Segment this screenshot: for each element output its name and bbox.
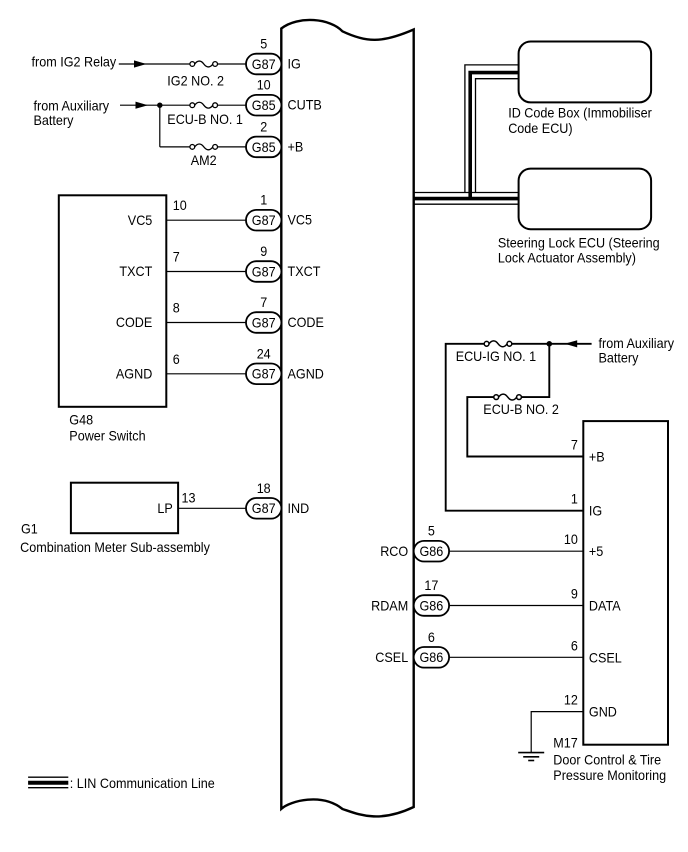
wire G48 TXCT to connector — [166, 271, 247, 273]
block M17 Door Control & Tire Pressure Monitoring — [583, 421, 668, 745]
pin number 1 on M17 — [571, 491, 578, 507]
pin number 9 on M17 — [571, 586, 578, 602]
svg-text:AGND: AGND — [116, 366, 152, 382]
svg-text:ECU-IG NO. 1: ECU-IG NO. 1 — [456, 348, 537, 364]
pin number 18 — [257, 480, 271, 496]
wire fuse AM2 to connector G85 pin 2 — [217, 146, 247, 148]
pin number 1 — [260, 192, 267, 208]
wire junction down to fuse ECU-B NO.2 — [522, 344, 550, 397]
net label VC5 — [288, 212, 313, 228]
net label RDAM — [371, 597, 408, 613]
wire fuse ECU-B NO.2 to +B pin — [467, 397, 583, 456]
pin label +5 inside M17 — [589, 543, 604, 559]
connector G87 pin 1 — [246, 210, 281, 231]
pin label LP inside G1 — [157, 500, 172, 516]
svg-text:G86: G86 — [420, 649, 444, 665]
label Steering Lock ECU — [498, 234, 660, 265]
LIN bus bundle bus-to-steering-lock (thin top) — [414, 192, 519, 194]
svg-text:6: 6 — [428, 629, 435, 645]
block ID Code Box — [519, 42, 652, 103]
svg-text:VC5: VC5 — [288, 212, 313, 228]
svg-text:Lock Actuator Assembly): Lock Actuator Assembly) — [498, 250, 636, 266]
svg-text:9: 9 — [571, 586, 578, 602]
svg-text:12: 12 — [564, 692, 578, 708]
connector G85 pin 10 — [246, 95, 281, 116]
svg-text:ID Code Box (Immobiliser: ID Code Box (Immobiliser — [508, 105, 652, 121]
legend label — [70, 775, 215, 791]
wire connector G86 to M17 (RCO) — [449, 550, 584, 552]
svg-text:TXCT: TXCT — [119, 263, 152, 279]
svg-text:Code ECU): Code ECU) — [508, 120, 572, 136]
svg-text:IG: IG — [589, 503, 602, 519]
connector G87 pin 5 — [246, 54, 281, 75]
pin number 2 — [260, 118, 267, 134]
svg-text:Steering Lock ECU (Steering: Steering Lock ECU (Steering — [498, 234, 660, 250]
fuse ECU-B NO. 1 — [190, 102, 218, 108]
pin number 7 — [260, 294, 267, 310]
connector G87 pin 18 — [246, 498, 281, 519]
net label AGND — [288, 365, 324, 381]
svg-text:G87: G87 — [252, 366, 276, 382]
wire junction to fuse ECU-IG NO.1 — [512, 343, 549, 345]
net label IG — [288, 56, 301, 72]
connector G86 pin 5 — [414, 541, 449, 562]
wire branch to fuse AM2 — [160, 146, 190, 148]
connector G87 pin 7 — [246, 312, 281, 333]
svg-text:IG: IG — [288, 56, 301, 72]
pin label AGND inside G48 — [116, 366, 152, 382]
svg-text:G87: G87 — [252, 500, 276, 516]
svg-text:24: 24 — [257, 345, 271, 361]
arrow into IG wire — [134, 60, 147, 67]
svg-text:G1: G1 — [21, 521, 38, 537]
LIN branch to ID code box (thick) — [470, 73, 518, 199]
pin number 5 — [260, 36, 267, 52]
svg-text:: LIN Communication Line: : LIN Communication Line — [70, 775, 215, 791]
net label CUTB — [288, 97, 322, 113]
legend LIN communication line symbol — [28, 777, 68, 788]
label G1 Combination Meter Sub-assembly — [20, 521, 210, 556]
LIN bus bundle bus-to-steering-lock (thick) — [414, 197, 519, 201]
wire aux battery feed — [549, 343, 591, 345]
LIN bus bundle bus-to-steering-lock (thin bottom) — [414, 203, 519, 205]
block G1 Combination Meter — [71, 483, 178, 534]
pin number 7 on G48 — [173, 249, 180, 265]
svg-text:VC5: VC5 — [128, 212, 153, 228]
svg-text:13: 13 — [182, 489, 196, 505]
wire G48 CODE to connector — [166, 322, 247, 324]
block Steering Lock ECU — [519, 169, 652, 230]
pin number 8 on G48 — [173, 300, 180, 316]
fuse label ECU-IG NO. 1 — [456, 348, 537, 364]
svg-text:5: 5 — [428, 523, 435, 539]
pin number 12 on M17 — [564, 692, 578, 708]
svg-text:Battery: Battery — [34, 112, 74, 128]
svg-text:AM2: AM2 — [191, 152, 217, 168]
svg-text:IG2 NO. 2: IG2 NO. 2 — [167, 73, 224, 89]
svg-text:6: 6 — [173, 351, 180, 367]
wire junction to fuse ECU-B NO.1 — [160, 104, 190, 106]
svg-text:G87: G87 — [252, 263, 276, 279]
pin label IG inside M17 — [589, 503, 602, 519]
svg-text:CODE: CODE — [288, 314, 324, 330]
pin label GND inside M17 — [589, 704, 617, 720]
wire junction-block bus (torn-paper shape) — [281, 20, 413, 816]
wire from IG2 relay to fuse — [119, 63, 190, 65]
wire fuse to connector G85 pin 10 — [217, 104, 247, 106]
svg-text:7: 7 — [173, 249, 180, 265]
junction dot right — [547, 341, 553, 347]
pin label VC5 inside G48 — [128, 212, 153, 228]
svg-text:GND: GND — [589, 704, 617, 720]
svg-text:TXCT: TXCT — [288, 263, 321, 279]
svg-text:G85: G85 — [252, 139, 276, 155]
svg-text:Battery: Battery — [599, 350, 639, 366]
svg-text:G86: G86 — [420, 543, 444, 559]
svg-text:10: 10 — [173, 197, 187, 213]
svg-text:G85: G85 — [252, 97, 276, 113]
wire G48 VC5 to connector — [166, 219, 247, 221]
svg-text:AGND: AGND — [288, 365, 324, 381]
connector G85 pin 2 — [246, 137, 281, 158]
svg-text:Door Control & Tire: Door Control & Tire — [553, 751, 661, 767]
pin label CSEL inside M17 — [589, 649, 622, 665]
wire fuse to connector G87 pin 5 — [217, 63, 247, 65]
svg-text:6: 6 — [571, 637, 578, 653]
svg-text:8: 8 — [173, 300, 180, 316]
wire connector G86 to M17 (RDAM) — [449, 605, 584, 607]
fuse label ECU-B NO. 1 — [167, 111, 243, 127]
block G48 Power Switch — [59, 195, 167, 406]
arrow into CUTB wire — [136, 102, 149, 109]
svg-text:1: 1 — [260, 192, 267, 208]
svg-text:7: 7 — [260, 294, 267, 310]
pin number 5 (G86) — [428, 523, 435, 539]
svg-text:9: 9 — [260, 243, 267, 259]
svg-text:RCO: RCO — [380, 543, 408, 559]
label M17 Door Control & Tire Pressure Monitoring — [553, 734, 666, 783]
svg-text:ECU-B NO. 1: ECU-B NO. 1 — [167, 111, 243, 127]
net label +B — [288, 138, 304, 154]
svg-text:17: 17 — [424, 577, 438, 593]
pin label CODE inside G48 — [116, 314, 152, 330]
pin number 10 on G48 — [173, 197, 187, 213]
wire aux battery to junction — [120, 104, 160, 106]
svg-text:M17: M17 — [553, 734, 578, 750]
svg-text:G86: G86 — [420, 597, 444, 613]
fuse ECU-IG NO. 1 — [484, 341, 512, 347]
connector G87 pin 24 — [246, 364, 281, 385]
fuse IG2 NO. 2 — [190, 61, 218, 67]
net label CODE — [288, 314, 324, 330]
svg-text:+5: +5 — [589, 543, 604, 559]
pin number 24 — [257, 345, 271, 361]
node from Auxiliary Battery label (right) — [599, 335, 675, 366]
LIN branch to ID code box (inner thin) — [476, 79, 519, 193]
svg-text:from IG2 Relay: from IG2 Relay — [32, 53, 117, 69]
svg-text:G87: G87 — [252, 314, 276, 330]
label ID Code Box — [508, 105, 652, 136]
fuse label ECU-B NO. 2 — [483, 401, 559, 417]
svg-text:CUTB: CUTB — [288, 97, 322, 113]
svg-text:+B: +B — [589, 449, 605, 465]
svg-text:10: 10 — [564, 531, 578, 547]
wire connector G86 to M17 (CSEL) — [449, 656, 584, 658]
ground symbol — [518, 753, 544, 761]
svg-text:CSEL: CSEL — [589, 649, 622, 665]
svg-text:CODE: CODE — [116, 314, 152, 330]
svg-text:Combination Meter Sub-assembly: Combination Meter Sub-assembly — [20, 539, 210, 555]
svg-text:18: 18 — [257, 480, 271, 496]
fuse label AM2 — [191, 152, 217, 168]
net label TXCT — [288, 263, 321, 279]
svg-text:from Auxiliary: from Auxiliary — [599, 335, 675, 351]
svg-text:1: 1 — [571, 491, 578, 507]
pin number 9 — [260, 243, 267, 259]
pin number 7 on M17 — [571, 437, 578, 453]
LIN branch to ID code box (outer thin) — [465, 65, 519, 193]
svg-text:10: 10 — [257, 77, 271, 93]
wire G48 AGND to connector — [166, 373, 247, 375]
pin number 17 (G86) — [424, 577, 438, 593]
connector G86 pin 17 — [414, 595, 449, 616]
fuse ECU-B NO. 2 — [494, 394, 522, 400]
svg-text:CSEL: CSEL — [375, 649, 408, 665]
pin label TXCT inside G48 — [119, 263, 152, 279]
net label RCO — [380, 543, 408, 559]
svg-text:5: 5 — [260, 36, 267, 52]
pin number 6 (G86) — [428, 629, 435, 645]
pin number 13 on G1 — [182, 489, 196, 505]
svg-text:7: 7 — [571, 437, 578, 453]
svg-text:DATA: DATA — [589, 598, 621, 614]
pin number 6 on M17 — [571, 637, 578, 653]
arrow from auxiliary battery — [565, 340, 578, 347]
svg-text:Power Switch: Power Switch — [69, 428, 145, 444]
svg-text:G87: G87 — [252, 212, 276, 228]
net label CSEL — [375, 649, 408, 665]
svg-text:ECU-B NO. 2: ECU-B NO. 2 — [483, 401, 559, 417]
connector G86 pin 6 — [414, 647, 449, 668]
svg-text:Pressure Monitoring: Pressure Monitoring — [553, 767, 666, 783]
svg-text:RDAM: RDAM — [371, 597, 408, 613]
svg-text:G48: G48 — [69, 411, 93, 427]
pin number 10 on M17 — [564, 531, 578, 547]
svg-text:LP: LP — [157, 500, 172, 516]
node from Auxiliary Battery label — [34, 97, 110, 128]
svg-text:IND: IND — [288, 500, 310, 516]
wire GND pin to ground — [531, 712, 583, 753]
wire fuse ECU-IG to IG pin (down and right) — [446, 344, 584, 511]
svg-text:2: 2 — [260, 118, 267, 134]
wire G1 LP to connector G87 pin 18 — [178, 507, 247, 509]
wire branch junction down to +B row — [159, 105, 161, 147]
node from IG2 Relay label — [32, 53, 117, 69]
pin label +B inside M17 — [589, 449, 605, 465]
net label IND — [288, 500, 310, 516]
pin label DATA inside M17 — [589, 598, 621, 614]
connector G87 pin 9 — [246, 261, 281, 282]
svg-text:G87: G87 — [252, 56, 276, 72]
junction dot — [157, 103, 162, 108]
label G48 Power Switch — [69, 411, 145, 443]
fuse AM2 — [190, 144, 218, 150]
svg-text:+B: +B — [288, 138, 304, 154]
pin number 6 on G48 — [173, 351, 180, 367]
pin number 10 — [257, 77, 271, 93]
fuse label IG2 NO. 2 — [167, 73, 224, 89]
